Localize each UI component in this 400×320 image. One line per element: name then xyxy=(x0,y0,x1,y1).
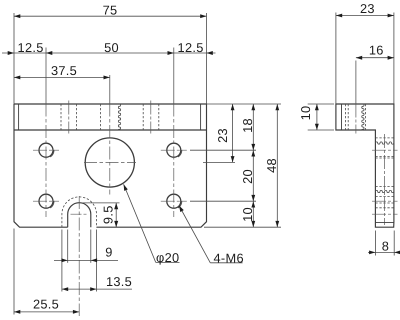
hole center cross h upper-right xyxy=(161,149,187,151)
svg-text:37.5: 37.5 xyxy=(51,63,77,78)
side dim 10 ext lines xyxy=(308,103,334,105)
svg-text:12.5: 12.5 xyxy=(178,40,204,55)
M6 tapped hole upper-right xyxy=(167,143,181,157)
leg wavy thread upper holes top xyxy=(375,142,393,144)
svg-text:9: 9 xyxy=(105,245,112,260)
side flange chamfer edge xyxy=(341,104,343,130)
svg-text:20: 20 xyxy=(240,169,255,184)
right holes vertical center line xyxy=(173,48,175,104)
svg-text:50: 50 xyxy=(104,40,119,55)
dim 18 vertical line xyxy=(252,104,254,150)
svg-text:12.5: 12.5 xyxy=(18,40,44,55)
svg-text:10: 10 xyxy=(298,106,313,121)
dim 25.5 line xyxy=(14,311,79,313)
slot visible U outline xyxy=(68,203,91,228)
svg-text:9.5: 9.5 xyxy=(100,205,115,224)
right ext line y104 xyxy=(207,103,282,105)
dim 9 line xyxy=(54,259,118,261)
svg-text:75: 75 xyxy=(103,3,118,18)
svg-text:8: 8 xyxy=(382,239,389,254)
front view plate outline xyxy=(14,104,207,227)
M6 tapped hole lower-left xyxy=(39,194,53,208)
hidden flange hole C edges xyxy=(142,104,144,130)
side dim 10 line xyxy=(316,104,318,130)
side flange hidden hole lines xyxy=(344,104,346,130)
flange end chamfer edges xyxy=(18,104,20,130)
side flange hole center line xyxy=(355,61,357,104)
leader 4-M6 xyxy=(179,206,210,263)
right ext line y162 circle center xyxy=(203,161,235,163)
dim 9.5 ext line top xyxy=(82,202,120,204)
flange bottom edge line xyxy=(14,129,207,131)
hole center cross h lower-right xyxy=(161,200,187,202)
side dim 8 line xyxy=(368,251,400,253)
right ext line y150 xyxy=(190,149,256,151)
right ext line y227 bottom xyxy=(204,226,281,228)
svg-text:48: 48 xyxy=(264,158,279,173)
leg hidden line slot hidden arc top xyxy=(375,196,394,198)
slot ext lines below plate xyxy=(61,230,63,292)
ext line right x206.5 xyxy=(206,13,208,104)
M6 tapped hole upper-left xyxy=(39,143,53,157)
leg hidden line phi20 top xyxy=(375,137,394,139)
slot arc horizontal center line xyxy=(71,213,89,215)
left holes vertical center line xyxy=(45,48,47,104)
M6 tapped hole lower-right xyxy=(167,194,181,208)
leg vertical center line xyxy=(384,134,386,225)
svg-text:4-M6: 4-M6 xyxy=(214,250,244,265)
svg-text:13.5: 13.5 xyxy=(106,274,132,289)
right ext line y201 xyxy=(190,200,256,202)
dim 48 vertical line xyxy=(276,104,278,227)
big hole horizontal center line xyxy=(84,161,136,163)
leg wavy thread lower holes top xyxy=(375,190,393,192)
dim 20 vertical line xyxy=(252,150,254,201)
dim 10 vertical line xyxy=(252,201,254,227)
leg slot center line h xyxy=(372,213,398,215)
side ext lines 23 xyxy=(335,13,337,105)
leg center line lower holes xyxy=(372,200,398,202)
ext line left x14 xyxy=(13,13,15,104)
ext line left bottom x14 xyxy=(13,229,15,315)
flange hole B wavy thread edge xyxy=(118,104,120,130)
svg-text:18: 18 xyxy=(240,118,255,133)
big hole circle phi20 xyxy=(85,138,134,187)
leg bottom chamfer edge xyxy=(375,222,394,224)
side dim 8 ext lines xyxy=(374,231,376,256)
leg hidden lines upper holes bottom xyxy=(375,155,394,157)
hidden flange hole B left edge xyxy=(99,104,101,130)
flange hole A center line xyxy=(68,101,70,134)
hole center cross h upper-left xyxy=(33,149,59,151)
dim 75 line xyxy=(14,15,207,17)
svg-text:φ20: φ20 xyxy=(156,250,179,265)
svg-text:23: 23 xyxy=(360,1,375,16)
side flange wavy thread line xyxy=(362,104,364,130)
dim 23 vertical line xyxy=(232,104,234,162)
big hole vertical center line xyxy=(109,75,111,104)
dim 9.5 vertical line xyxy=(115,203,117,227)
slot vertical center line xyxy=(78,196,80,316)
hole center cross h lower-left xyxy=(33,200,59,202)
leader phi20 xyxy=(124,184,156,262)
side flange hidden hole line right xyxy=(365,104,367,130)
dim 13.5 line xyxy=(62,288,132,290)
svg-text:23: 23 xyxy=(215,128,230,143)
leg hidden lines slot arc / lower holes bottom xyxy=(375,202,394,204)
svg-text:10: 10 xyxy=(240,207,255,222)
side view outline xyxy=(336,104,394,227)
svg-text:16: 16 xyxy=(369,43,384,58)
hidden flange hole A edges (dashed) xyxy=(60,104,62,130)
slot hidden U outline (dashed) xyxy=(62,197,97,227)
side dim 16 line xyxy=(356,57,394,59)
leg hidden line phi20 bottom xyxy=(375,186,394,188)
svg-text:25.5: 25.5 xyxy=(33,296,59,311)
side dim 23 line xyxy=(336,15,394,17)
dim 37.5 line xyxy=(14,76,110,78)
dim 12.5/50/12.5 line xyxy=(2,52,216,54)
leg center line upper holes xyxy=(372,149,398,151)
flange hole C center line xyxy=(150,101,152,134)
